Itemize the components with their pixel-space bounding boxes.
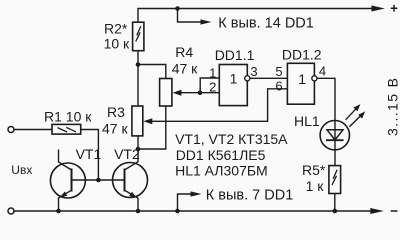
svg-text:R4: R4: [175, 44, 193, 60]
LED light arrow 2: [349, 116, 360, 127]
resistor R2: [133, 22, 144, 51]
wire bottom negative rail: [14, 210, 371, 212]
svg-text:1: 1: [209, 65, 216, 80]
wire DD1.1 pin 3 to DD1.2 pin 5: [250, 77, 288, 79]
svg-text:10 к: 10 к: [104, 36, 130, 52]
svg-text:К выв. 7 DD1: К выв. 7 DD1: [206, 187, 293, 203]
svg-text:R1 10 к: R1 10 к: [44, 109, 92, 125]
wire tap to pin 14: [178, 9, 202, 23]
wire R3 bottom lead: [137, 136, 139, 149]
svg-text:3...15 В: 3...15 В: [384, 77, 400, 136]
LED light arrow 1: [346, 109, 356, 120]
resistor R5: [329, 166, 341, 194]
svg-text:HL1 АЛ307БМ: HL1 АЛ307БМ: [175, 162, 268, 178]
svg-text:R3: R3: [107, 104, 125, 120]
transistor VT1: [50, 163, 85, 198]
wire DD1.1 pin 2: [200, 92, 219, 94]
svg-text:VT1, VT2 КТ315А: VT1, VT2 КТ315А: [175, 131, 288, 147]
op-amp DD1.1: [219, 65, 247, 106]
LED HL1: [320, 121, 349, 150]
node junction top rail: [175, 6, 180, 11]
svg-text:VT1: VT1: [76, 146, 102, 162]
wire tap to pin 7: [178, 194, 193, 211]
svg-text:DD1 К561ЛЕ5: DD1 К561ЛЕ5: [176, 147, 266, 163]
wire R5 bottom lead: [334, 194, 336, 212]
wire R2 bottom lead: [137, 51, 139, 65]
wire DD1.1 pin 1: [200, 78, 219, 93]
node R2/R3/R4 junction: [136, 62, 141, 67]
svg-text:Uвх: Uвх: [11, 163, 32, 177]
resistor R4: [160, 79, 172, 107]
svg-text:DD1.2: DD1.2: [282, 47, 322, 63]
svg-text:4: 4: [319, 63, 326, 78]
svg-text:1 к: 1 к: [306, 178, 325, 194]
wire input to R1: [14, 129, 52, 131]
svg-text:R5*: R5*: [302, 162, 326, 178]
node base junction: [96, 178, 101, 183]
svg-text:DD1.1: DD1.1: [215, 47, 255, 63]
svg-text:3: 3: [250, 64, 257, 79]
node R5 to rail: [333, 209, 338, 214]
resistor R3: [132, 106, 143, 136]
node pin7 tap rail: [175, 209, 180, 214]
svg-text:2: 2: [209, 80, 216, 95]
power arrow +: [372, 6, 386, 12]
svg-text:К выв. 14 DD1: К выв. 14 DD1: [218, 15, 314, 31]
op-amp DD1.2: [287, 63, 314, 104]
wire to R4 top: [138, 65, 166, 79]
svg-text:47 к: 47 к: [172, 61, 198, 77]
terminal input top: [8, 127, 14, 133]
power arrow minus: [370, 208, 384, 214]
wire top positive rail: [138, 9, 372, 23]
wire R4 wiper: [181, 92, 200, 94]
node tied inputs junction: [198, 90, 203, 95]
node R3/R4/VT2 junction: [136, 147, 141, 152]
wire R1 to bases: [81, 130, 99, 181]
node VT1 emitter rail: [56, 209, 61, 214]
node VT2 emitter rail: [136, 209, 141, 214]
wire R3 wiper from DD1.2 pin 6: [152, 89, 287, 122]
transistor VT2: [113, 163, 148, 198]
svg-text:6: 6: [275, 78, 282, 93]
svg-text:R2*: R2*: [104, 20, 128, 36]
svg-text:5: 5: [275, 64, 282, 79]
svg-text:HL1: HL1: [294, 113, 320, 129]
wire DD1.2 pin 4 output: [317, 78, 335, 120]
svg-text:47 к: 47 к: [102, 121, 128, 137]
wire R3 top lead: [137, 65, 139, 107]
svg-text:VT2: VT2: [114, 146, 140, 162]
plus terminal label: [391, 5, 398, 12]
resistor R1: [52, 124, 81, 134]
svg-text:1: 1: [298, 71, 306, 87]
svg-text:1: 1: [230, 71, 238, 87]
terminal input bottom: [8, 208, 14, 214]
wire R4 bottom lead: [138, 106, 166, 149]
